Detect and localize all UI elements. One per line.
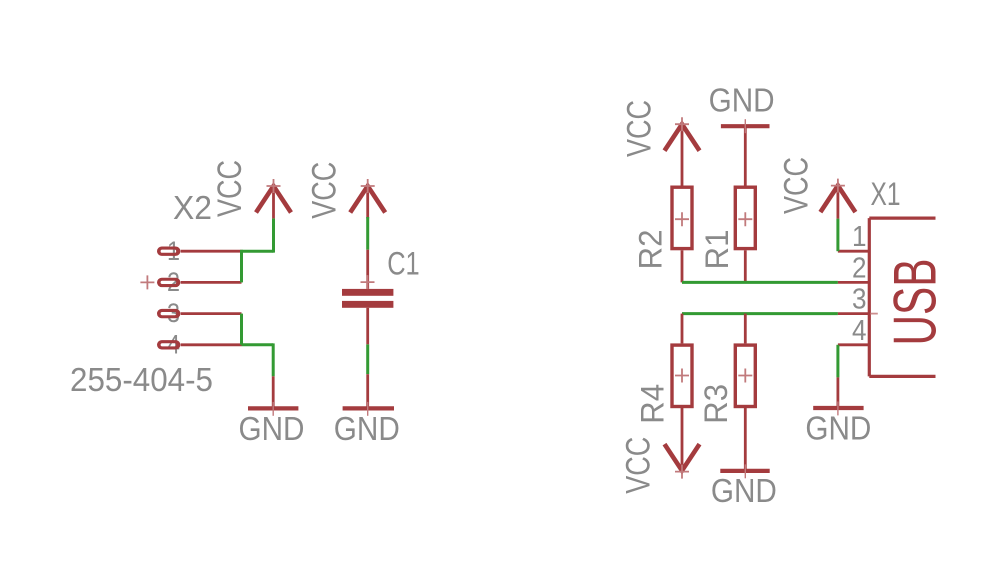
- svg-text:R3: R3: [698, 384, 734, 424]
- svg-text:R2: R2: [632, 230, 668, 270]
- svg-text:4: 4: [852, 315, 867, 347]
- svg-text:VCC: VCC: [621, 100, 659, 157]
- svg-text:255-404-5: 255-404-5: [70, 362, 213, 399]
- svg-text:X1: X1: [871, 176, 901, 212]
- svg-text:VCC: VCC: [619, 437, 657, 494]
- svg-text:VCC: VCC: [305, 162, 343, 219]
- svg-text:X2: X2: [173, 189, 212, 226]
- svg-text:3: 3: [852, 284, 867, 316]
- svg-text:VCC: VCC: [777, 157, 815, 214]
- svg-text:R1: R1: [699, 230, 735, 270]
- svg-text:2: 2: [852, 252, 867, 284]
- svg-text:GND: GND: [334, 410, 400, 447]
- svg-text:GND: GND: [711, 472, 777, 509]
- svg-text:GND: GND: [709, 82, 775, 119]
- svg-text:GND: GND: [805, 410, 871, 447]
- svg-text:C1: C1: [387, 245, 420, 281]
- svg-text:USB: USB: [882, 259, 949, 346]
- svg-text:VCC: VCC: [211, 160, 249, 217]
- svg-text:1: 1: [852, 221, 867, 253]
- svg-text:R4: R4: [634, 384, 670, 424]
- svg-text:GND: GND: [239, 410, 305, 447]
